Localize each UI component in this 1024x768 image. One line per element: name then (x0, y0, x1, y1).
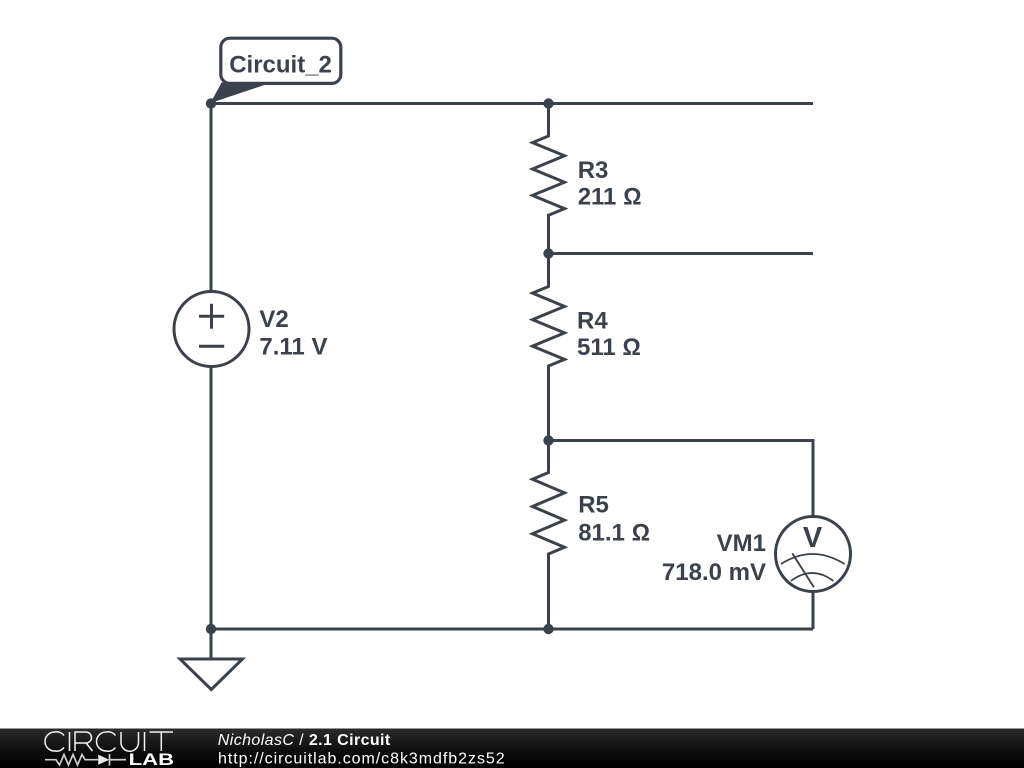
svg-text:V: V (803, 522, 823, 554)
svg-text:R4: R4 (577, 307, 608, 334)
svg-text:NicholasC / 2.1 Circuit: NicholasC / 2.1 Circuit (218, 732, 391, 749)
svg-text:211 Ω: 211 Ω (578, 184, 642, 211)
svg-text:http://circuitlab.com/c8k3mdfb: http://circuitlab.com/c8k3mdfb2zs52 (218, 750, 506, 767)
svg-text:7.11 V: 7.11 V (259, 333, 327, 360)
svg-text:Circuit_2: Circuit_2 (229, 51, 332, 78)
svg-text:511 Ω: 511 Ω (577, 334, 641, 361)
svg-text:VM1: VM1 (717, 530, 766, 557)
svg-text:81.1 Ω: 81.1 Ω (578, 519, 650, 546)
svg-text:R3: R3 (578, 157, 609, 184)
svg-text:R5: R5 (578, 492, 609, 519)
svg-text:718.0 mV: 718.0 mV (662, 559, 766, 586)
svg-text:V2: V2 (259, 306, 288, 333)
svg-text:LAB: LAB (129, 751, 174, 768)
